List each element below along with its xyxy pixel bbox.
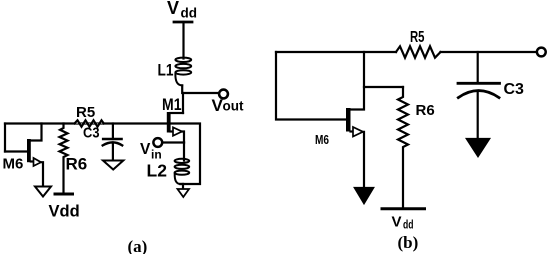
svg-text:M6: M6	[3, 156, 24, 173]
svg-text:R6: R6	[416, 102, 435, 119]
svg-text:R5: R5	[76, 104, 95, 121]
svg-text:out: out	[223, 99, 244, 114]
svg-text:M1: M1	[162, 95, 182, 114]
svg-text:(a): (a)	[128, 237, 148, 254]
svg-text:in: in	[151, 148, 162, 162]
svg-text:(b): (b)	[398, 233, 419, 252]
svg-text:dd: dd	[403, 218, 414, 232]
svg-text:L2: L2	[147, 161, 168, 181]
svg-text:R5: R5	[410, 29, 425, 46]
svg-text:dd: dd	[181, 6, 198, 21]
svg-text:M6: M6	[315, 132, 329, 147]
svg-text:V: V	[392, 214, 402, 231]
svg-text:V: V	[167, 0, 179, 18]
svg-text:V: V	[140, 141, 151, 158]
svg-text:R6: R6	[66, 155, 88, 174]
svg-text:C3: C3	[504, 81, 525, 98]
svg-text:L1: L1	[158, 61, 174, 80]
svg-text:Vdd: Vdd	[49, 203, 80, 221]
svg-text:C3: C3	[83, 125, 100, 142]
